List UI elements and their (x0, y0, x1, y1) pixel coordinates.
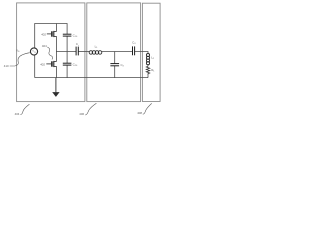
svg-text:C3: C3 (132, 41, 136, 46)
wire: switch node to series capacitor (56, 51, 76, 53)
wire: half-bridge column middle (switch node) (55, 37, 57, 62)
capacitor C3 (series, right) (133, 46, 135, 55)
wire: inductor L1 to series capacitor C3 (102, 51, 133, 53)
capacitor C2 (shunt) (110, 64, 119, 66)
capacitor C20 (lower shunt) (63, 63, 72, 65)
svg-text:L2: L2 (151, 55, 155, 60)
capacitor Cr (series, left) (76, 47, 78, 56)
svg-text:C10: C10 (73, 33, 78, 38)
svg-text:C2: C2 (121, 63, 125, 68)
svg-text:402: 402 (40, 62, 45, 66)
wire: source lower lead (34, 55, 36, 77)
wire: top rail (35, 24, 67, 48)
svg-text:C20: C20 (73, 62, 78, 67)
module box 406 (matching network enclosure) (87, 3, 141, 102)
wire: load resistor to bottom rail (147, 75, 149, 77)
module box 408 (load enclosure) (142, 3, 160, 101)
wire: series capacitor C3 to load (135, 52, 148, 54)
wire: capacitor branch lower (66, 65, 68, 78)
wire: half-bridge column lower (source lead) (55, 67, 57, 78)
leader from 410 to source (10, 53, 30, 66)
module box 404 (driver stage enclosure) (17, 3, 85, 102)
svg-text:408: 408 (137, 111, 142, 115)
wire: shunt capacitor branch lower (114, 66, 116, 78)
wire: series capacitor to inductor L1 (78, 51, 89, 53)
leader from bottom-middle label to box 406 (85, 103, 96, 115)
transistor Q2 (lower MOSFET) (46, 61, 56, 67)
svg-text:404: 404 (15, 112, 20, 116)
capacitor C10 (upper shunt) (63, 34, 72, 36)
svg-text:R1: R1 (151, 68, 155, 73)
inductor L1 (series coil) (89, 51, 102, 55)
transistor Q1 (upper MOSFET) (47, 31, 57, 37)
svg-text:410: 410 (4, 64, 9, 68)
wire: shunt capacitor branch upper (114, 52, 116, 64)
svg-text:Cr: Cr (76, 42, 79, 47)
leader from bottom-right label to box 408 (143, 103, 152, 114)
svg-text:404: 404 (42, 44, 47, 48)
svg-text:VS: VS (16, 48, 20, 53)
wire: load inductor to resistor (147, 64, 149, 66)
inductor L2 (load coil) (146, 54, 149, 65)
ground arrow (52, 78, 59, 97)
svg-text:L1: L1 (95, 44, 99, 49)
leader from bottom-left label to box 404 (20, 104, 29, 114)
wire: half-bridge column upper (drain lead) (55, 24, 57, 32)
svg-text:402: 402 (41, 33, 46, 37)
wire: bottom rail (35, 77, 148, 79)
svg-text:406: 406 (79, 112, 84, 116)
leader from 404 to lower gate (47, 47, 52, 60)
wire: capacitor branch middle (66, 36, 68, 63)
resistor R1 (load) (146, 66, 149, 75)
AC source Vs (circle with sine) (30, 48, 37, 55)
